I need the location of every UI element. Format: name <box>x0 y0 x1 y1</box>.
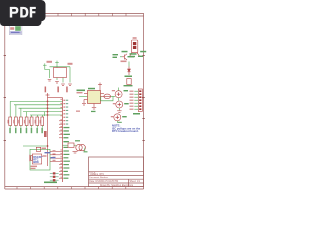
net label bottom <box>44 182 57 184</box>
regulator section: supply arrow <box>98 83 102 91</box>
resistor R5 <box>24 117 28 133</box>
ground under U4 <box>92 108 96 110</box>
resistor R7 <box>35 117 39 133</box>
note text blue <box>112 124 141 134</box>
title block outline <box>89 157 144 187</box>
wire to RTC block <box>23 145 48 147</box>
barrel jack J1 <box>130 37 140 56</box>
value label +5V <box>44 131 47 137</box>
junction <box>47 145 49 147</box>
RTC IC U2 <box>32 154 41 164</box>
D1 label <box>125 76 133 78</box>
RTC labels below <box>31 166 38 168</box>
capacitor marks under cluster <box>48 80 72 86</box>
supply symbol VCC rail <box>46 93 63 166</box>
wire bus lines left network <box>10 101 62 117</box>
U1 pin numbers <box>60 99 62 178</box>
resistor R6 <box>29 117 33 133</box>
JP2 bottom label <box>133 113 140 115</box>
U1 name and value labels <box>45 87 47 93</box>
crystal Y2 <box>76 144 86 150</box>
PDF badge <box>0 0 60 40</box>
IC U1 microcontroller body edge <box>62 98 64 183</box>
title block text <box>89 172 140 186</box>
RTC pin stubs to U1 <box>50 151 63 161</box>
pin header JP2 <box>130 89 143 111</box>
resistor R9 <box>68 143 74 147</box>
U4 name label <box>88 88 95 90</box>
frame row tick marks left and right <box>4 56 145 141</box>
capacitor C4 <box>113 101 129 110</box>
resistor R4 <box>18 117 22 133</box>
U1 pin names <box>63 100 70 179</box>
node VCC center cluster <box>43 61 59 67</box>
transistor Q1 <box>122 54 127 60</box>
RTC block wires <box>30 149 50 170</box>
crystal labels <box>64 141 68 142</box>
voltage regulator U4 <box>84 91 104 108</box>
capacitor C1 stubs and labels <box>112 88 128 101</box>
crystal circuit at U1 right <box>63 144 77 146</box>
resistor R10 on top edge <box>36 147 40 151</box>
ground under crystal <box>73 152 78 154</box>
opto U3 box <box>54 68 67 78</box>
wire loop around relay box <box>45 64 70 82</box>
drawing frame border <box>5 13 144 189</box>
svg-text:RTC breakout board.: RTC breakout board. <box>112 129 139 133</box>
resistor R1 <box>127 79 131 85</box>
input wire and label <box>79 95 88 97</box>
ground under C4 <box>117 111 121 113</box>
diode D1 <box>127 67 130 76</box>
wire bypass loop under fuse <box>101 96 113 100</box>
capacitor C5 <box>111 114 127 123</box>
frame column tick marks bottom <box>17 187 126 189</box>
crystal Y1 in RTC block <box>30 155 33 161</box>
resistor R3 <box>13 117 17 133</box>
U1 left pin stubs <box>59 121 63 178</box>
resistor R2 <box>8 117 12 133</box>
wire down from diode <box>128 62 130 67</box>
capacitor C1 polarized <box>115 91 122 98</box>
Q1 labels <box>113 54 119 55</box>
jumper JP1 pads <box>53 172 56 181</box>
J1 labels <box>122 51 128 53</box>
svg-text:BRK: BRK <box>33 160 39 164</box>
value label right of box <box>68 63 73 65</box>
note text blue small left <box>45 152 56 158</box>
embedded logo thumbnail <box>9 25 39 45</box>
ground left of U4 <box>82 100 86 106</box>
fuse F1 <box>104 95 116 97</box>
resistor R8 <box>40 117 44 133</box>
frame column tick marks top <box>58 13 126 16</box>
